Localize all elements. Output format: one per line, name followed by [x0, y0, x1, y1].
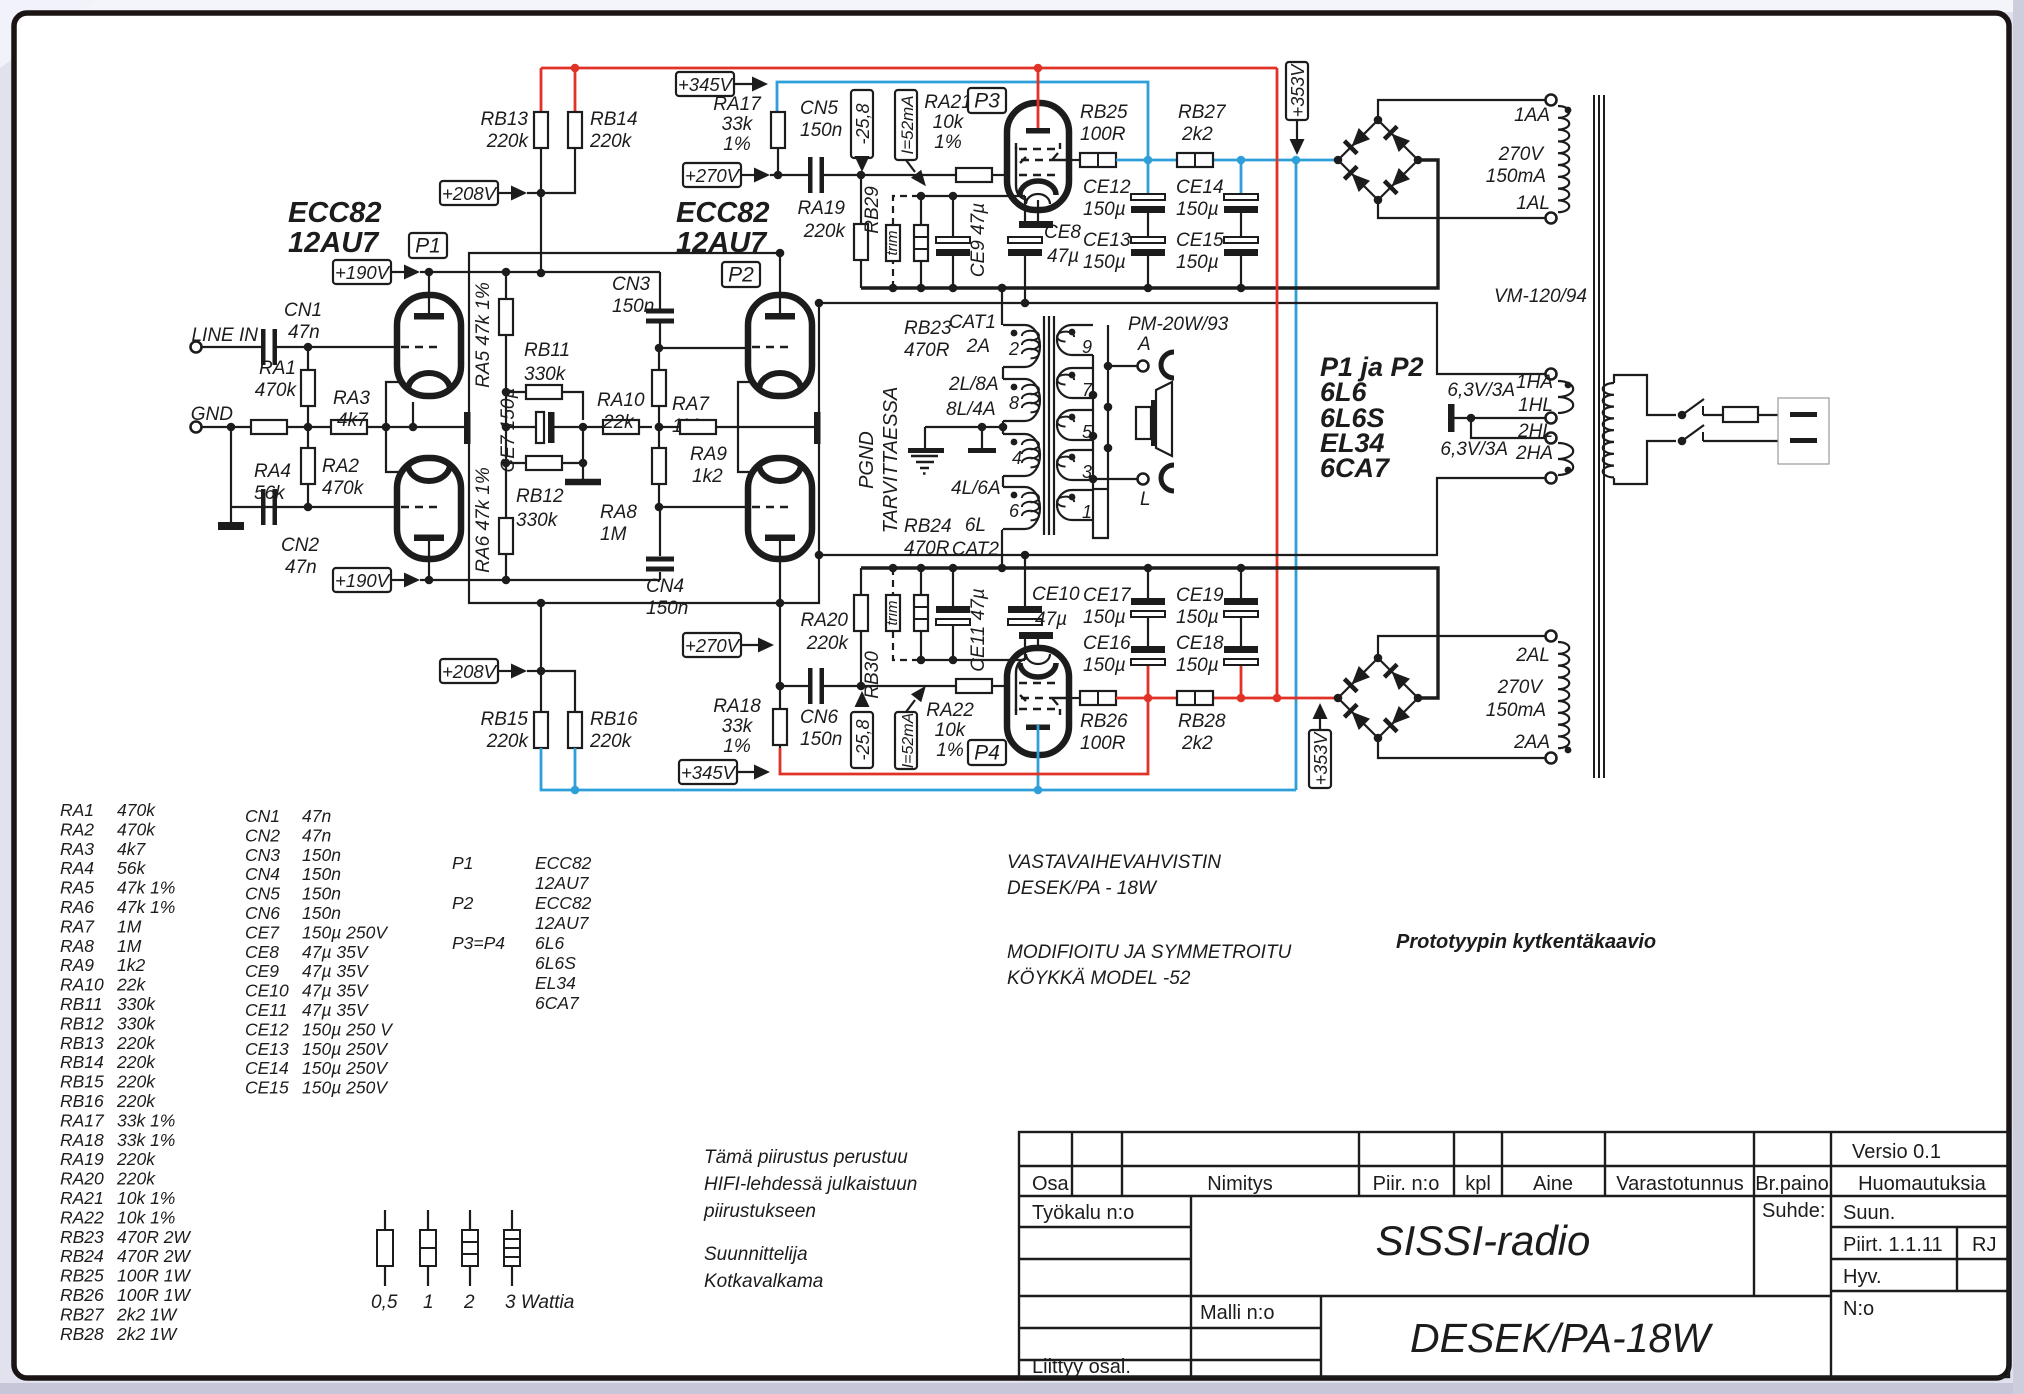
phase dots primary: [1011, 330, 1018, 337]
svg-text:Suhde:: Suhde:: [1762, 1200, 1825, 1222]
svg-text:470k: 470k: [117, 819, 156, 839]
svg-text:270V: 270V: [1497, 677, 1545, 698]
svg-text:RA5 47k 1%: RA5 47k 1%: [473, 282, 494, 388]
svg-text:HIFI-lehdessä julkaistuun: HIFI-lehdessä julkaistuun: [704, 1174, 917, 1195]
wire P2a grid: [659, 347, 748, 349]
resistor RB11 330k: [506, 391, 526, 393]
svg-text:6,3V/3A: 6,3V/3A: [1447, 380, 1515, 401]
svg-text:100R: 100R: [1080, 733, 1126, 754]
svg-text:470k: 470k: [255, 380, 298, 401]
svg-text:CN3: CN3: [245, 845, 280, 865]
svg-text:3 Wattia: 3 Wattia: [505, 1292, 574, 1313]
svg-text:270V: 270V: [1498, 144, 1546, 165]
svg-text:Tämä piirustus perustuu: Tämä piirustus perustuu: [704, 1147, 908, 1168]
svg-text:56k: 56k: [117, 858, 146, 878]
transformer primary link top: [1001, 288, 1003, 325]
svg-text:piirustukseen: piirustukseen: [703, 1201, 816, 1222]
svg-text:12AU7: 12AU7: [535, 873, 590, 893]
svg-text:RA19: RA19: [797, 198, 845, 219]
svg-text:22k: 22k: [602, 412, 635, 433]
+190V bottom label: [333, 568, 391, 592]
svg-text:RB11: RB11: [60, 994, 102, 1014]
svg-text:+208V: +208V: [442, 661, 498, 682]
svg-text:1: 1: [423, 1292, 434, 1313]
svg-text:8: 8: [1009, 393, 1019, 413]
wire bias row bottom: [921, 659, 1025, 661]
resistor RA9 1k2: [659, 426, 680, 428]
svg-text:2HA: 2HA: [1515, 443, 1553, 464]
svg-text:CAT1: CAT1: [949, 312, 996, 333]
capacitor CE13 150u: [1131, 237, 1165, 243]
svg-text:RA10: RA10: [597, 390, 645, 411]
svg-text:RA2: RA2: [60, 819, 94, 839]
wire blue +345V: [777, 82, 1148, 160]
svg-text:CE18: CE18: [1176, 633, 1224, 654]
ground at RB12: [565, 479, 601, 486]
wire CAT1 line: [818, 303, 1545, 374]
svg-text:2L/8A: 2L/8A: [948, 374, 999, 395]
svg-text:RJ: RJ: [1972, 1234, 1996, 1256]
svg-text:1M: 1M: [600, 524, 627, 545]
svg-text:CN3: CN3: [612, 274, 650, 295]
svg-text:1%: 1%: [723, 736, 751, 757]
svg-text:150µ: 150µ: [1176, 252, 1219, 273]
terminal 2AL: [1546, 631, 1557, 642]
svg-text:CE12: CE12: [245, 1019, 289, 1039]
svg-text:47n: 47n: [302, 825, 331, 845]
wire bridge2 AC bottom: [1378, 738, 1545, 758]
capacitor CE7 150u: [506, 426, 536, 428]
svg-text:Kotkavalkama: Kotkavalkama: [704, 1271, 823, 1292]
+353V bottom label: [1309, 730, 1331, 788]
svg-text:+190V: +190V: [335, 262, 391, 283]
svg-text:DESEK/PA-18W: DESEK/PA-18W: [1410, 1315, 1713, 1361]
svg-text:trim: trim: [884, 601, 901, 626]
svg-text:RA6: RA6: [60, 897, 94, 917]
svg-text:DESEK/PA - 18W: DESEK/PA - 18W: [1007, 878, 1158, 899]
title block Malli row: [1320, 1296, 1322, 1377]
pentode P4: [1007, 648, 1069, 755]
wire CAT2 line: [818, 478, 1545, 555]
capacitor CE11 47u: [952, 568, 954, 606]
svg-text:CE13: CE13: [245, 1039, 289, 1059]
svg-text:2AA: 2AA: [1513, 732, 1550, 753]
svg-text:VM-120/94: VM-120/94: [1494, 286, 1587, 307]
svg-text:33k: 33k: [722, 716, 754, 737]
svg-text:CE17: CE17: [1083, 585, 1132, 606]
svg-text:150n: 150n: [302, 845, 341, 865]
trimmer RB30: [893, 568, 921, 660]
svg-text:+353V: +353V: [1288, 63, 1308, 118]
svg-text:12AU7: 12AU7: [288, 227, 380, 259]
resistor RB12 330k: [506, 462, 526, 464]
svg-text:PM-20W/93: PM-20W/93: [1128, 314, 1229, 335]
capacitor plate at P1 cathodes: [464, 412, 471, 444]
svg-text:1M: 1M: [117, 936, 142, 956]
phase dot 1HA: [1565, 382, 1572, 389]
svg-text:RA1: RA1: [259, 358, 296, 379]
svg-text:MODIFIOITU JA SYMMETROITU: MODIFIOITU JA SYMMETROITU: [1007, 942, 1292, 963]
svg-text:1AL: 1AL: [1516, 193, 1550, 214]
wire red screen rail: [1116, 697, 1177, 700]
wire P3 screen to RB25: [1069, 159, 1081, 161]
triode P1b ECC82: [397, 458, 461, 559]
svg-text:1k2: 1k2: [692, 466, 723, 487]
svg-text:22k: 22k: [116, 975, 146, 995]
svg-text:6,3V/3A: 6,3V/3A: [1440, 439, 1508, 460]
resistor RA5 47k 1%: [505, 272, 507, 299]
svg-text:P2: P2: [452, 893, 474, 913]
svg-text:220k: 220k: [486, 131, 530, 152]
svg-text:150µ 250V: 150µ 250V: [302, 1078, 389, 1098]
bridge rectifier 2: [1338, 658, 1378, 698]
svg-text:CE14: CE14: [245, 1058, 289, 1078]
resistor RB25 100R: [1080, 153, 1116, 167]
svg-text:RA17: RA17: [713, 94, 762, 115]
wire P2b grid: [659, 506, 748, 508]
svg-text:RB16: RB16: [60, 1091, 104, 1111]
svg-text:RA19: RA19: [60, 1149, 104, 1169]
heater center tap: [1448, 404, 1455, 432]
svg-text:RB25: RB25: [1080, 102, 1128, 123]
svg-text:RA22: RA22: [926, 700, 974, 721]
svg-text:10k: 10k: [933, 112, 965, 133]
wire: [287, 426, 331, 428]
terminal 2AA: [1546, 753, 1557, 764]
+345V bottom label: [679, 760, 737, 784]
svg-text:LINE IN: LINE IN: [191, 325, 258, 346]
svg-text:1%: 1%: [934, 132, 962, 153]
fuse: [1723, 407, 1758, 422]
svg-text:RB29: RB29: [862, 186, 883, 234]
svg-text:RB28: RB28: [60, 1324, 104, 1344]
svg-text:CAT2: CAT2: [952, 539, 1000, 560]
capacitor CN4 150n: [659, 507, 661, 556]
wire: [367, 426, 464, 428]
svg-text:CE11: CE11: [245, 1000, 287, 1020]
svg-text:47µ 35V: 47µ 35V: [302, 1000, 370, 1020]
resistor RA19 220k: [860, 175, 862, 224]
svg-text:RB12: RB12: [516, 486, 564, 507]
svg-text:RA6 47k 1%: RA6 47k 1%: [473, 467, 494, 573]
heater winding 1: [1558, 381, 1573, 413]
resistor RB14 220k: [568, 112, 582, 148]
svg-text:RA20: RA20: [60, 1169, 104, 1189]
svg-text:7: 7: [1082, 380, 1093, 400]
svg-text:I=52mA: I=52mA: [900, 713, 917, 769]
capacitor CN5 150n: [808, 157, 813, 193]
svg-text:PGND: PGND: [856, 431, 878, 489]
heater winding 2: [1558, 443, 1573, 475]
+270V bottom label: [683, 633, 741, 657]
wire CN2 branch: [230, 427, 232, 507]
wire to speaker A: [1108, 365, 1137, 367]
svg-text:RA1: RA1: [60, 800, 94, 820]
resistor RA20 220k: [860, 568, 862, 595]
svg-text:33k 1%: 33k 1%: [117, 1130, 175, 1150]
svg-text:RA20: RA20: [800, 610, 848, 631]
svg-text:Br.paino: Br.paino: [1755, 1173, 1828, 1195]
svg-text:12AU7: 12AU7: [676, 227, 768, 259]
svg-text:CE14: CE14: [1176, 177, 1224, 198]
resistor RA2 470k: [307, 427, 309, 448]
svg-text:330k: 330k: [524, 364, 567, 385]
svg-text:33k 1%: 33k 1%: [117, 1110, 175, 1130]
resistor RA8 1M: [658, 427, 660, 448]
wire mains bottom: [1614, 441, 1676, 484]
svg-text:150µ: 150µ: [1176, 607, 1219, 628]
svg-text:470R 2W: 470R 2W: [117, 1246, 191, 1266]
wire bias row: [921, 195, 1025, 197]
capacitor plate at P2 cathodes: [738, 426, 814, 428]
svg-text:SISSI-radio: SISSI-radio: [1376, 1217, 1591, 1264]
wire mains top: [1614, 375, 1676, 415]
wire P4 screen to RB26: [1069, 697, 1081, 699]
svg-text:CE9 47µ: CE9 47µ: [968, 203, 989, 277]
label -25,8 top: [851, 90, 873, 158]
svg-text:47n: 47n: [288, 322, 320, 343]
svg-text:RA7: RA7: [672, 394, 710, 415]
svg-text:RA18: RA18: [713, 696, 761, 717]
svg-text:P1: P1: [452, 853, 473, 873]
wire: [992, 174, 1007, 176]
svg-text:47µ 35V: 47µ 35V: [302, 961, 370, 981]
svg-text:4k7: 4k7: [117, 839, 146, 859]
svg-text:220k: 220k: [589, 731, 633, 752]
svg-text:2A: 2A: [966, 336, 990, 357]
ground input: [230, 507, 232, 522]
svg-text:ECC82: ECC82: [288, 197, 382, 229]
HV winding 2: [1558, 642, 1569, 748]
svg-text:CN4: CN4: [245, 864, 280, 884]
resistor RB16 220k: [568, 712, 582, 748]
svg-text:RA2: RA2: [322, 456, 359, 477]
svg-text:150µ: 150µ: [1176, 199, 1219, 220]
wire primary jogs: [1002, 367, 1004, 379]
svg-text:1%: 1%: [936, 740, 964, 761]
wire cathode links P1: [386, 382, 399, 427]
wire blue bottom bus: [541, 748, 1296, 790]
svg-text:RB14: RB14: [590, 109, 638, 130]
ground PGND: [924, 427, 926, 448]
capacitor CE10 47u: [1024, 555, 1026, 606]
svg-text:100R: 100R: [1080, 124, 1126, 145]
svg-text:CE19: CE19: [1176, 585, 1224, 606]
svg-text:Varastotunnus: Varastotunnus: [1616, 1173, 1744, 1195]
+208V top label: [440, 181, 498, 205]
svg-text:L: L: [1140, 489, 1151, 510]
svg-text:220k: 220k: [486, 731, 530, 752]
svg-text:150mA: 150mA: [1486, 700, 1546, 721]
svg-text:CE10: CE10: [245, 981, 289, 1001]
svg-text:Malli n:o: Malli n:o: [1200, 1302, 1274, 1324]
svg-text:220k: 220k: [116, 1033, 156, 1053]
transformer primary winding groups: [1003, 325, 1040, 367]
terminal 1HA: [1546, 369, 1557, 380]
svg-text:GND: GND: [191, 404, 234, 425]
speaker: [1136, 407, 1151, 439]
svg-text:+345V: +345V: [678, 74, 734, 95]
svg-text:CE10: CE10: [1032, 584, 1080, 605]
mains plug: [1778, 398, 1829, 464]
svg-text:Suunnittelija: Suunnittelija: [704, 1244, 808, 1265]
wire bridge1 AC top: [1378, 100, 1545, 120]
svg-text:N:o: N:o: [1843, 1298, 1874, 1320]
svg-text:10k 1%: 10k 1%: [117, 1188, 175, 1208]
title block: [1019, 1132, 2009, 1377]
terminal 1HL: [1546, 413, 1557, 424]
svg-text:RA22: RA22: [60, 1207, 104, 1227]
svg-text:330k: 330k: [516, 510, 559, 531]
svg-text:CE13: CE13: [1083, 230, 1131, 251]
svg-text:470R: 470R: [904, 538, 950, 559]
GND terminal: [191, 422, 202, 433]
svg-text:4k7: 4k7: [337, 410, 369, 431]
mains transformer core: [1593, 95, 1595, 778]
svg-text:+270V: +270V: [685, 165, 741, 186]
capacitor CE16 150u: [1147, 665, 1150, 698]
capacitor CE12 150u: [1147, 160, 1150, 194]
svg-text:470R: 470R: [904, 340, 950, 361]
resistor RA7 1M: [652, 370, 666, 406]
svg-text:47µ 35V: 47µ 35V: [302, 942, 370, 962]
label I=52mA top: [895, 90, 917, 160]
svg-text:ECC82: ECC82: [535, 893, 592, 913]
svg-text:6L6: 6L6: [535, 933, 564, 953]
resistor RB24 470R 2W body: [920, 568, 922, 595]
svg-text:CN1: CN1: [245, 806, 280, 826]
wire blue screen rail: [1116, 159, 1177, 162]
wire P4 cathode: [1037, 639, 1039, 650]
+345V top label: [676, 72, 734, 96]
label box P2: [722, 262, 760, 287]
wire P3 cathode: [1037, 200, 1039, 221]
wire red P3 anode: [1037, 68, 1040, 128]
svg-text:TARVITTAESSA: TARVITTAESSA: [880, 387, 902, 534]
terminal 2HA: [1546, 473, 1557, 484]
svg-text:+270V: +270V: [685, 635, 741, 656]
svg-text:P3: P3: [974, 90, 1000, 113]
svg-text:RA10: RA10: [60, 975, 104, 995]
transformer core: [1043, 316, 1045, 535]
svg-text:1HL: 1HL: [1518, 395, 1553, 416]
wire red top bus: [541, 67, 1277, 70]
svg-text:CN5: CN5: [800, 98, 838, 119]
terminal bar PGND option: [981, 427, 983, 448]
wattage legend resistors: [384, 1210, 386, 1230]
triode P2a ECC82: [748, 295, 812, 396]
capacitor CE15 150u: [1224, 237, 1258, 243]
svg-text:2k2: 2k2: [1181, 733, 1213, 754]
svg-text:Versio 0.1: Versio 0.1: [1852, 1141, 1941, 1163]
wire heater common: [1454, 417, 1545, 419]
pentode P3: [1007, 103, 1069, 210]
svg-text:RB23: RB23: [904, 318, 952, 339]
svg-text:47k 1%: 47k 1%: [117, 878, 175, 898]
resistor RA21 10k 1%: [956, 168, 992, 182]
svg-text:RB27: RB27: [1178, 102, 1227, 123]
svg-text:2k2 1W: 2k2 1W: [116, 1324, 178, 1344]
phase dot 2HA: [1565, 467, 1572, 474]
svg-text:RA3: RA3: [333, 388, 370, 409]
svg-text:6: 6: [1009, 501, 1020, 521]
wire bridge2 AC top: [1378, 636, 1545, 658]
svg-text:150n: 150n: [302, 903, 341, 923]
svg-text:47k 1%: 47k 1%: [117, 897, 175, 917]
resistor RA1 470k: [307, 347, 309, 370]
svg-text:47n: 47n: [285, 557, 317, 578]
svg-text:0,5: 0,5: [371, 1292, 398, 1313]
transformer secondary winding groups: [1057, 325, 1093, 355]
svg-text:Työkalu n:o: Työkalu n:o: [1032, 1202, 1134, 1224]
svg-text:1: 1: [1082, 502, 1092, 522]
resistor RA4 56k: [251, 420, 287, 434]
svg-text:47µ: 47µ: [1047, 246, 1079, 267]
svg-text:6CA7: 6CA7: [535, 993, 580, 1013]
svg-text:1%: 1%: [723, 134, 751, 155]
svg-text:Liittyy osal.: Liittyy osal.: [1032, 1356, 1131, 1378]
svg-text:470R 2W: 470R 2W: [117, 1227, 191, 1247]
svg-text:trim: trim: [884, 231, 901, 256]
svg-text:A: A: [1137, 334, 1151, 355]
svg-text:1HA: 1HA: [1516, 372, 1553, 393]
wire: [824, 174, 955, 176]
triode P1a ECC82: [397, 295, 461, 396]
wire cathode links P2: [738, 382, 751, 427]
terminal 1AA: [1546, 95, 1557, 106]
svg-text:CE7: CE7: [245, 922, 280, 942]
svg-text:RA9: RA9: [690, 444, 727, 465]
svg-text:+190V: +190V: [335, 570, 391, 591]
svg-text:47µ 35V: 47µ 35V: [302, 981, 370, 1001]
svg-text:RB14: RB14: [60, 1052, 104, 1072]
svg-text:CE15: CE15: [245, 1078, 289, 1098]
trimmer RB29: [893, 196, 921, 288]
+353V top label: [1286, 62, 1308, 120]
resistor RA3 4k7: [331, 420, 367, 434]
svg-text:220k: 220k: [116, 1149, 156, 1169]
capacitor CN1 47n: [261, 329, 266, 365]
title block right section: [1753, 1196, 1755, 1296]
svg-text:RA18: RA18: [60, 1130, 104, 1150]
label I=52mA bottom: [895, 712, 917, 769]
secondary rails: [1107, 325, 1109, 489]
svg-text:CN2: CN2: [245, 825, 280, 845]
wire: [824, 685, 955, 687]
terminal 2HL: [1546, 433, 1557, 444]
svg-text:150µ: 150µ: [1083, 199, 1126, 220]
triode P2b ECC82: [748, 458, 812, 559]
wire red riser: [1276, 68, 1279, 698]
svg-text:Huomautuksia: Huomautuksia: [1858, 1173, 1987, 1195]
bridge rectifier 1: [1338, 120, 1378, 160]
svg-text:CN6: CN6: [800, 707, 838, 728]
wire signal row P4: [780, 685, 808, 687]
wire: [202, 426, 251, 428]
svg-text:+353V: +353V: [1311, 731, 1331, 786]
svg-text:RB26: RB26: [1080, 711, 1128, 732]
svg-text:RA4: RA4: [254, 461, 291, 482]
svg-text:RB11: RB11: [524, 340, 570, 361]
wire RB13/RB14 join: [540, 148, 542, 273]
svg-text:150n: 150n: [302, 864, 341, 884]
wire to speaker L: [1093, 478, 1137, 480]
svg-text:220k: 220k: [589, 131, 633, 152]
resistor RB28 2k2: [1177, 691, 1213, 705]
svg-text:10k: 10k: [935, 720, 967, 741]
terminal 1AL: [1546, 213, 1557, 224]
svg-text:P2: P2: [728, 264, 754, 287]
